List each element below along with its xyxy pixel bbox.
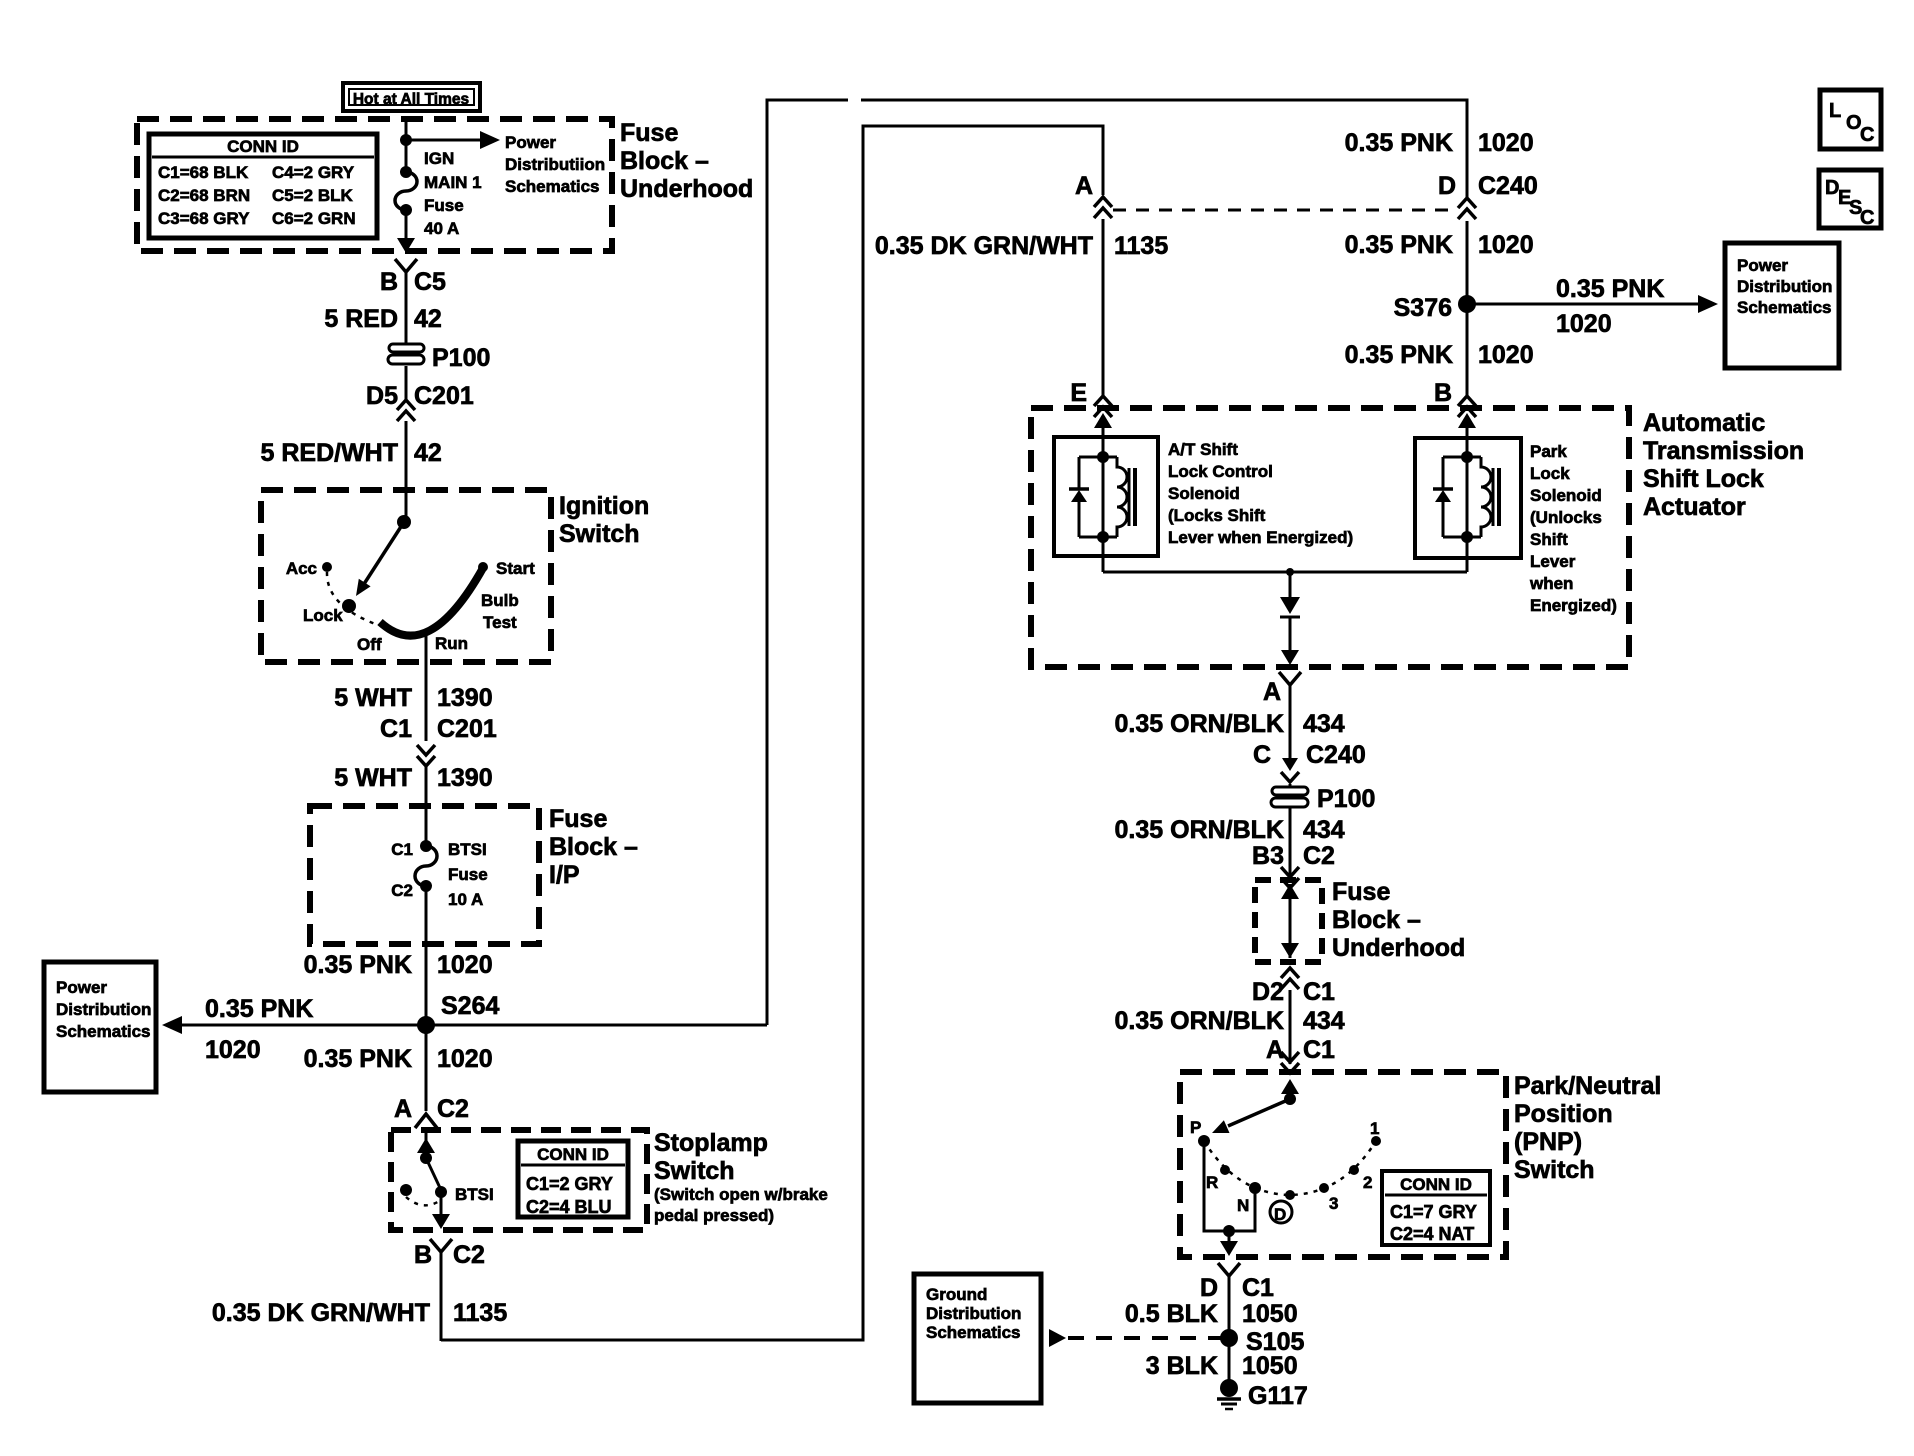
svg-text:Stoplamp: Stoplamp [654, 1129, 768, 1157]
svg-text:Block –: Block – [620, 147, 709, 175]
svg-text:1135: 1135 [453, 1299, 507, 1327]
svg-text:A/T Shift: A/T Shift [1168, 440, 1238, 459]
svg-text:CONN ID: CONN ID [227, 137, 299, 156]
svg-text:Position: Position [1514, 1100, 1613, 1128]
svg-text:S376: S376 [1394, 294, 1452, 322]
fuse block I/P dashed box [310, 806, 539, 944]
clamp diode (park solenoid) [1433, 457, 1453, 537]
svg-text:Energized): Energized) [1530, 596, 1617, 615]
svg-text:D2: D2 [1252, 978, 1284, 1006]
svg-text:40 A: 40 A [424, 219, 459, 238]
svg-text:C1=68 BLK: C1=68 BLK [158, 163, 249, 182]
svg-text:1020: 1020 [1478, 129, 1534, 157]
wire 0.35 ORN/BLK 434 [1115, 990, 1345, 1064]
wire into stoplamp switch with up arrow [417, 1130, 435, 1158]
fuse IGN MAIN 1 40 A [395, 166, 417, 216]
svg-text:C2: C2 [391, 881, 413, 900]
connector D2 C1 [1252, 968, 1335, 1006]
svg-text:Block –: Block – [1332, 906, 1421, 934]
svg-text:L: L [1829, 100, 1841, 122]
splice S105 [1220, 1328, 1304, 1356]
wire into PNP switch with up arrow [1281, 1079, 1299, 1099]
svg-text:MAIN 1: MAIN 1 [424, 173, 482, 192]
svg-text:Ignition: Ignition [559, 492, 649, 520]
svg-text:C201: C201 [414, 382, 474, 410]
contact P [1190, 1118, 1210, 1147]
svg-text:Schematics: Schematics [926, 1323, 1021, 1342]
wire into park lock solenoid with up arrow [1458, 413, 1476, 461]
svg-text:0.35 PNK: 0.35 PNK [1345, 341, 1453, 369]
svg-text:C1=7 GRY: C1=7 GRY [1390, 1202, 1477, 1222]
connector A C2 [394, 1095, 469, 1128]
svg-text:Fuse: Fuse [1332, 878, 1390, 906]
svg-text:C1: C1 [380, 715, 412, 743]
svg-text:Ground: Ground [926, 1285, 987, 1304]
wire fuse output with arrow at box edge [397, 210, 415, 253]
svg-text:0.5 BLK: 0.5 BLK [1125, 1300, 1218, 1328]
svg-text:C1: C1 [1242, 1274, 1274, 1302]
svg-text:C: C [1860, 207, 1874, 229]
svg-text:Off: Off [357, 635, 382, 654]
stoplamp left contact [400, 1184, 412, 1196]
wire 0.35 PNK 1020 to S264 [304, 886, 493, 1025]
svg-text:0.35 PNK: 0.35 PNK [1556, 275, 1664, 303]
svg-text:Shift Lock: Shift Lock [1643, 465, 1764, 493]
svg-text:3: 3 [1329, 1194, 1338, 1213]
stoplamp switch dashed box [391, 1130, 647, 1230]
connector A C240 (left) [1075, 172, 1112, 218]
box: Ground Distribution Schematics [914, 1274, 1041, 1403]
svg-text:Lever: Lever [1530, 552, 1576, 571]
svg-text:10 A: 10 A [448, 890, 483, 909]
fuse BTSI 10 A [391, 840, 487, 909]
svg-text:Solenoid: Solenoid [1530, 486, 1602, 505]
svg-text:1020: 1020 [1478, 231, 1534, 259]
solenoid coil branch (A/T) [1079, 451, 1135, 543]
label: Park Lock Solenoid [1529, 442, 1617, 615]
label: Park/Neutral Position (PNP) Switch [1514, 1072, 1661, 1184]
label: Power Distributiion Schematics [505, 133, 605, 196]
svg-text:B: B [1434, 379, 1452, 407]
svg-text:Lock: Lock [303, 606, 343, 625]
svg-text:0.35 PNK: 0.35 PNK [1345, 129, 1453, 157]
svg-text:Run: Run [435, 634, 468, 653]
svg-text:434: 434 [1303, 710, 1345, 738]
svg-text:C1: C1 [391, 840, 413, 859]
ignition switch pivot [397, 515, 411, 529]
PNP pivot [1284, 1093, 1296, 1105]
svg-text:C2: C2 [1303, 842, 1335, 870]
svg-text:Distribution: Distribution [926, 1304, 1021, 1323]
dashed connector line C240 [1113, 209, 1455, 212]
splice S376 [1394, 294, 1476, 322]
wire below grommet [405, 366, 408, 399]
wire 0.35 DK GRN/WHT 1135 to E [875, 219, 1168, 397]
svg-text:Lock Control: Lock Control [1168, 462, 1273, 481]
wire 5 RED 42 [324, 272, 441, 345]
wire 0.35 DK GRN/WHT 1135 down [212, 1252, 507, 1341]
svg-text:(Switch open w/brake: (Switch open w/brake [654, 1185, 828, 1204]
wire 5 WHT 1390 [334, 764, 492, 846]
svg-text:Schematics: Schematics [505, 177, 600, 196]
svg-text:CONN ID: CONN ID [537, 1145, 609, 1164]
thick travel arc Off-Run-Start [380, 568, 483, 636]
ignition switch lever arrow [356, 522, 404, 596]
label: Fuse Block - Underhood [620, 119, 753, 203]
svg-text:1050: 1050 [1242, 1300, 1298, 1328]
svg-text:A: A [1266, 1036, 1284, 1064]
wire 0.35 ORN/BLK 434 [1115, 685, 1345, 758]
wire P and N to output [1204, 1141, 1255, 1231]
connector ID table (PNP switch) [1382, 1171, 1490, 1245]
svg-text:Fuse: Fuse [424, 196, 464, 215]
wire solenoid commons join [1103, 537, 1467, 576]
wire right from S264 to riser [426, 1024, 767, 1027]
wire from hot feed down [405, 121, 408, 172]
svg-text:C2=4 NAT: C2=4 NAT [1390, 1224, 1474, 1244]
splice S264 [417, 992, 499, 1034]
contact Acc [286, 559, 332, 578]
svg-text:D: D [1200, 1274, 1218, 1302]
svg-text:(PNP): (PNP) [1514, 1128, 1582, 1156]
contact N [1237, 1182, 1261, 1215]
connector B C2 [414, 1239, 485, 1269]
svg-text:Underhood: Underhood [620, 175, 753, 203]
svg-text:C: C [1253, 741, 1271, 769]
svg-text:1050: 1050 [1242, 1352, 1298, 1380]
fuse block underhood dashed box [137, 119, 612, 251]
svg-text:C3=68 GRY: C3=68 GRY [158, 209, 250, 228]
connector C C240 [1253, 741, 1366, 782]
contact 2 [1349, 1165, 1372, 1192]
svg-text:C201: C201 [437, 715, 497, 743]
svg-text:Power: Power [1737, 256, 1788, 275]
svg-text:0.35 DK GRN/WHT: 0.35 DK GRN/WHT [212, 1299, 430, 1327]
svg-text:C6=2 GRN: C6=2 GRN [272, 209, 356, 228]
svg-text:Shift: Shift [1530, 530, 1568, 549]
svg-text:B3: B3 [1252, 842, 1284, 870]
solenoid coil branch (park) [1443, 451, 1499, 543]
ground G117 [1217, 1379, 1308, 1410]
svg-text:C2: C2 [453, 1241, 485, 1269]
dashed wire to ground distribution with arrow [1049, 1329, 1221, 1347]
svg-text:C5=2 BLK: C5=2 BLK [272, 186, 353, 205]
fuse block underhood small dashed box [1255, 880, 1322, 962]
svg-text:42: 42 [414, 305, 442, 333]
ignition switch dashed box [261, 490, 551, 662]
automatic transmission shift lock actuator dashed box [1031, 408, 1629, 667]
svg-text:Switch: Switch [559, 520, 640, 548]
svg-text:Switch: Switch [1514, 1156, 1595, 1184]
svg-text:I/P: I/P [549, 861, 580, 889]
wire 0.5 BLK 1050 [1125, 1276, 1298, 1380]
wire into A/T shift lock solenoid with up arrow [1094, 413, 1112, 461]
svg-text:1390: 1390 [437, 764, 493, 792]
connector A below actuator [1263, 672, 1301, 706]
svg-text:3 BLK: 3 BLK [1146, 1352, 1218, 1380]
svg-text:Distribution: Distribution [56, 1000, 151, 1019]
wire 0.35 PNK 1020 below D [1345, 221, 1534, 397]
svg-text:Switch: Switch [654, 1157, 735, 1185]
wire arrow left to power distribution schematics [162, 995, 426, 1064]
svg-text:C1: C1 [1303, 1036, 1335, 1064]
label: Automatic Transmission Shift Lock Actuator [1643, 409, 1804, 521]
grommet P100 [388, 344, 490, 372]
wire arrow to power distribution schematics [406, 131, 500, 149]
stoplamp pivot [420, 1152, 432, 1164]
connector ID table (stoplamp switch) [518, 1141, 628, 1217]
label: Fuse Block - I/P [549, 805, 638, 889]
svg-text:C240: C240 [1478, 172, 1538, 200]
svg-text:0.35 DK GRN/WHT: 0.35 DK GRN/WHT [875, 232, 1093, 260]
box: LOC [1820, 90, 1881, 149]
grommet P100 (lower) [1271, 784, 1375, 880]
svg-text:C5: C5 [414, 268, 446, 296]
svg-text:P100: P100 [1317, 785, 1375, 813]
box: Power Distribution Schematics (right) [1725, 243, 1839, 368]
wire 3 BLK 1050 [1146, 1352, 1298, 1380]
svg-text:Schematics: Schematics [56, 1022, 151, 1041]
svg-text:434: 434 [1303, 816, 1345, 844]
svg-text:Power: Power [56, 978, 107, 997]
svg-text:0.35 PNK: 0.35 PNK [1345, 231, 1453, 259]
svg-text:1020: 1020 [1556, 310, 1612, 338]
svg-text:CONN ID: CONN ID [1400, 1175, 1472, 1194]
svg-text:0.35 ORN/BLK: 0.35 ORN/BLK [1115, 1007, 1284, 1035]
svg-text:Power: Power [505, 133, 556, 152]
park lock solenoid box [1415, 438, 1521, 558]
contact D (circled) [1270, 1190, 1295, 1224]
label: Ignition Switch [559, 492, 649, 548]
svg-text:C2: C2 [437, 1095, 469, 1123]
connector A C1 [1266, 1036, 1335, 1073]
wire 0.35 ORN/BLK 434 [1115, 816, 1345, 844]
svg-text:P: P [1190, 1118, 1201, 1137]
svg-text:R: R [1206, 1173, 1218, 1192]
node: fuse feed junction [400, 134, 412, 146]
svg-text:C4=2 GRY: C4=2 GRY [272, 163, 355, 182]
svg-text:A: A [394, 1095, 412, 1123]
wire through fuse block with arrows [1281, 884, 1299, 958]
svg-text:1020: 1020 [205, 1036, 261, 1064]
dashed contact arc [406, 1197, 441, 1205]
svg-text:Park/Neutral: Park/Neutral [1514, 1072, 1661, 1100]
wire 0.35 PNK 1020 above B [1345, 341, 1534, 407]
svg-text:Lock: Lock [1530, 464, 1570, 483]
svg-text:BTSI: BTSI [455, 1185, 494, 1204]
connector ID table (fuse block underhood) [149, 134, 377, 238]
svg-text:5 WHT: 5 WHT [334, 764, 412, 792]
svg-text:Test: Test [483, 613, 517, 632]
park/neutral position switch dashed box [1180, 1072, 1506, 1257]
svg-text:1020: 1020 [437, 951, 493, 979]
dashed position arc [1204, 1141, 1376, 1195]
svg-text:D5: D5 [366, 382, 398, 410]
connector B C5 [380, 259, 446, 296]
wire top run to right riser [861, 100, 1467, 197]
wire arrow right to power distribution schematics [1467, 275, 1718, 338]
svg-text:434: 434 [1303, 1007, 1345, 1035]
svg-text:B: B [380, 268, 398, 296]
label: Fuse Block - Underhood (small) [1332, 878, 1465, 962]
svg-text:Start: Start [496, 559, 535, 578]
svg-text:BTSI: BTSI [448, 840, 487, 859]
svg-text:Schematics: Schematics [1737, 298, 1832, 317]
svg-text:1020: 1020 [437, 1045, 493, 1073]
wire BTSI output with down arrow [432, 1192, 450, 1229]
PNP output junction with down arrow [1220, 1225, 1238, 1256]
svg-text:42: 42 [414, 439, 442, 467]
contact BTSI [435, 1185, 494, 1204]
svg-text:Block –: Block – [549, 833, 638, 861]
svg-text:B: B [414, 1241, 432, 1269]
svg-text:C2=68 BRN: C2=68 BRN [158, 186, 250, 205]
svg-text:C240: C240 [1306, 741, 1366, 769]
svg-text:D: D [1438, 172, 1456, 200]
svg-text:Fuse: Fuse [549, 805, 607, 833]
connector E (actuator) [1070, 379, 1112, 417]
stoplamp lever [426, 1158, 441, 1190]
svg-text:pedal pressed): pedal pressed) [654, 1206, 774, 1225]
wire route bottom and riser to connector A [441, 126, 1103, 1340]
wire 0.35 PNK 1020 below S264 [304, 1025, 493, 1111]
svg-text:Fuse: Fuse [620, 119, 678, 147]
svg-text:5 WHT: 5 WHT [334, 684, 412, 712]
svg-text:(Unlocks: (Unlocks [1530, 508, 1602, 527]
svg-text:E: E [1070, 379, 1087, 407]
svg-text:D: D [1274, 1205, 1286, 1224]
svg-text:A: A [1263, 678, 1281, 706]
svg-text:C2=4 BLU: C2=4 BLU [526, 1197, 612, 1217]
svg-text:A: A [1075, 172, 1093, 200]
svg-text:P100: P100 [432, 344, 490, 372]
box: Power Distribution Schematics (left) [44, 962, 156, 1092]
contact 1 [1370, 1119, 1381, 1146]
svg-text:Automatic: Automatic [1643, 409, 1765, 437]
label box: Hot at All Times [343, 83, 480, 111]
svg-text:0.35 ORN/BLK: 0.35 ORN/BLK [1115, 816, 1284, 844]
connector D5 C201 [366, 382, 474, 421]
svg-text:Underhood: Underhood [1332, 934, 1465, 962]
svg-text:IGN: IGN [424, 149, 454, 168]
wire ignition run output [334, 632, 492, 741]
label: Stoplamp Switch [654, 1129, 828, 1225]
label: Bulb Test [481, 591, 519, 632]
svg-text:N: N [1237, 1196, 1249, 1215]
connector D C240 (right) [1438, 172, 1538, 219]
connector D C1 below PNP [1200, 1263, 1274, 1302]
svg-text:Park: Park [1530, 442, 1567, 461]
svg-text:(Locks Shift: (Locks Shift [1168, 506, 1266, 525]
svg-text:1390: 1390 [437, 684, 493, 712]
connector B (actuator) [1458, 396, 1476, 417]
svg-text:Bulb: Bulb [481, 591, 519, 610]
output diode [1280, 572, 1300, 665]
svg-text:0.35 PNK: 0.35 PNK [304, 951, 412, 979]
svg-text:Acc: Acc [286, 559, 317, 578]
svg-text:Fuse: Fuse [448, 865, 488, 884]
svg-text:5 RED: 5 RED [324, 305, 398, 333]
box: DESC [1819, 170, 1881, 229]
svg-text:Actuator: Actuator [1643, 493, 1746, 521]
dashed travel arc Acc-Lock-Off [327, 572, 378, 625]
svg-text:C: C [1860, 124, 1874, 146]
A/T shift lock control solenoid box [1054, 437, 1158, 556]
wire 5 RED/WHT 42 [261, 421, 442, 522]
connector C1 C201 [380, 715, 497, 766]
wire riser from S264 to top [767, 100, 848, 1025]
PNP lever arrow to P [1212, 1099, 1290, 1133]
svg-text:Transmission: Transmission [1643, 437, 1804, 465]
svg-text:1020: 1020 [1478, 341, 1534, 369]
svg-text:2: 2 [1363, 1173, 1372, 1192]
svg-text:Hot at All Times: Hot at All Times [353, 91, 469, 108]
svg-text:0.35 PNK: 0.35 PNK [205, 995, 313, 1023]
contact Start [478, 559, 535, 578]
svg-text:G117: G117 [1248, 1382, 1308, 1410]
contact Lock [303, 599, 356, 625]
svg-text:1135: 1135 [1114, 232, 1168, 260]
svg-text:C1=2 GRY: C1=2 GRY [526, 1174, 613, 1194]
svg-text:S264: S264 [441, 992, 499, 1020]
contact R [1206, 1165, 1230, 1192]
svg-text:C1: C1 [1303, 978, 1335, 1006]
svg-text:Distribution: Distribution [1737, 277, 1832, 296]
label: A/T Shift Lock Control Solenoid [1168, 440, 1353, 547]
svg-text:1: 1 [1370, 1119, 1379, 1138]
svg-text:5 RED/WHT: 5 RED/WHT [261, 439, 399, 467]
svg-text:Solenoid: Solenoid [1168, 484, 1240, 503]
contact 3 [1319, 1183, 1338, 1213]
svg-text:Distributiion: Distributiion [505, 155, 605, 174]
svg-text:Lever when Energized): Lever when Energized) [1168, 528, 1353, 547]
connector B3 C2 [1252, 842, 1335, 888]
svg-text:0.35 PNK: 0.35 PNK [304, 1045, 412, 1073]
svg-text:0.35 ORN/BLK: 0.35 ORN/BLK [1115, 710, 1284, 738]
svg-text:when: when [1529, 574, 1573, 593]
label: IGN MAIN 1 Fuse 40 A [424, 149, 482, 238]
clamp diode (A/T solenoid) [1069, 457, 1089, 537]
